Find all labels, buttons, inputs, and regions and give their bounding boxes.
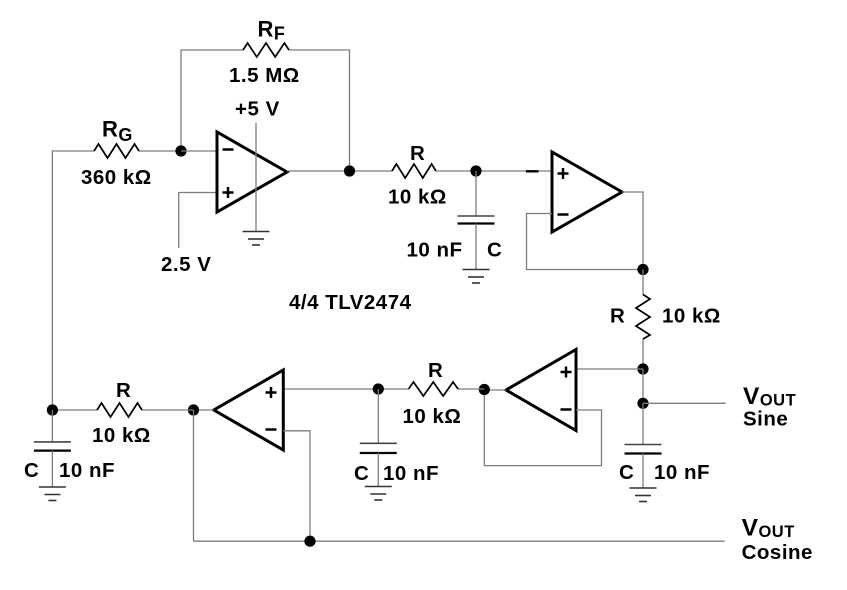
capacitor C (sine output) [642, 403, 644, 444]
wire: U3 output to node [484, 389, 506, 391]
node: third RC junction [373, 383, 384, 394]
node: cosine line junction [304, 536, 315, 547]
svg-text:10 kΩ: 10 kΩ [662, 305, 721, 328]
node: U1 output / RF junction [344, 165, 355, 176]
node: U3 output junction [479, 384, 490, 395]
resistor RF [243, 43, 289, 57]
resistor R (first RC section) [392, 164, 436, 178]
wire: U2 feedback from output node to inverting input [527, 214, 644, 270]
capacitor C (first RC) [475, 171, 477, 216]
node: fourth RC junction [47, 404, 58, 415]
node: U4 output junction [188, 404, 199, 415]
ground: U1 supply ground [243, 232, 270, 246]
svg-text:10 kΩ: 10 kΩ [92, 424, 151, 447]
op-amp U3 [506, 350, 576, 431]
svg-text:R: R [116, 379, 131, 402]
svg-text:360 kΩ: 360 kΩ [81, 166, 152, 189]
op-amp U2 [552, 152, 622, 232]
svg-text:2.5 V: 2.5 V [161, 253, 211, 276]
U1 plus symbol [223, 187, 234, 198]
wire: vertical R connections [642, 270, 644, 370]
node: sine RC junction [637, 363, 648, 374]
svg-text:1.5 MΩ: 1.5 MΩ [229, 64, 300, 87]
node: sine output [637, 398, 648, 409]
wire: A1 non-inverting input from 2.5V [179, 193, 217, 249]
wire: U3 feedback from inverting input around to output node [484, 390, 601, 466]
wire: U4 output to node [194, 409, 214, 411]
svg-text:R: R [428, 359, 443, 382]
node: U2 output junction [637, 264, 648, 275]
wire: R to U4 plus input [283, 388, 408, 390]
wire: R to C node to U2 plus input [436, 170, 552, 172]
wire: junction down to sine output node [642, 369, 644, 403]
ground: fourth C [39, 487, 66, 501]
wire: cosine output line [194, 540, 725, 542]
wire: sine output line [643, 402, 726, 404]
U4 plus symbol [266, 387, 277, 398]
ground: third C [365, 487, 392, 501]
svg-text:10 nF: 10 nF [59, 459, 115, 482]
svg-text:4/4 TLV2474: 4/4 TLV2474 [289, 291, 412, 314]
wire: U4 feedback from inverting input down to cosine line [283, 431, 310, 541]
svg-text:C: C [487, 239, 502, 262]
op-amp U4 [214, 370, 283, 450]
svg-text:C: C [24, 459, 39, 482]
U1 minus symbol [223, 148, 234, 151]
U2 plus symbol [558, 168, 569, 179]
svg-text:Cosine: Cosine [742, 541, 813, 564]
wire: A1 inverting input [181, 150, 217, 152]
U3 plus symbol [561, 367, 572, 378]
svg-text:10 kΩ: 10 kΩ [388, 186, 447, 209]
wire: feedback loop from inverting node up and over to output node [181, 50, 243, 151]
op-amp U1 [217, 132, 287, 212]
wire: U4 output node down to cosine line [193, 410, 195, 541]
wire: U2 output down to node [622, 192, 643, 270]
svg-text:C: C [354, 462, 369, 485]
wire: junction to U3 plus input [576, 368, 643, 370]
capacitor C (third RC) [377, 389, 379, 443]
svg-text:10 kΩ: 10 kΩ [403, 405, 462, 428]
svg-text:+5 V: +5 V [235, 98, 280, 121]
resistor R (fourth RC) [97, 403, 142, 417]
svg-text:10 nF: 10 nF [407, 239, 463, 262]
wire: RG input segment and left rail down to bottom-left node [52, 151, 181, 410]
resistor RG [94, 144, 139, 158]
U2 minus symbol [558, 213, 569, 216]
resistor R (vertical) [636, 295, 650, 340]
U3 minus symbol [561, 408, 572, 411]
node: first RC junction [470, 165, 481, 176]
svg-text:C: C [619, 461, 634, 484]
ground: first C [463, 270, 490, 284]
wire: bottom-left R connections [52, 409, 193, 411]
wire: +5V supply through U1 to ground [255, 123, 257, 232]
wire: dark stub before U2 input [526, 170, 539, 172]
resistor R (third RC) [409, 382, 459, 396]
wire: U3 output node to R [458, 388, 484, 390]
svg-text:10 nF: 10 nF [654, 461, 710, 484]
svg-text:10 nF: 10 nF [383, 462, 439, 485]
U4 minus symbol [266, 428, 277, 431]
svg-text:Sine: Sine [743, 408, 788, 431]
ground: sine C [630, 488, 657, 502]
capacitor C (fourth RC) [51, 410, 53, 442]
wire: U1 output to first R [287, 170, 392, 172]
node: RG / RF / inverting input junction [175, 145, 186, 156]
svg-text:R: R [610, 305, 625, 328]
svg-text:R: R [410, 142, 425, 165]
